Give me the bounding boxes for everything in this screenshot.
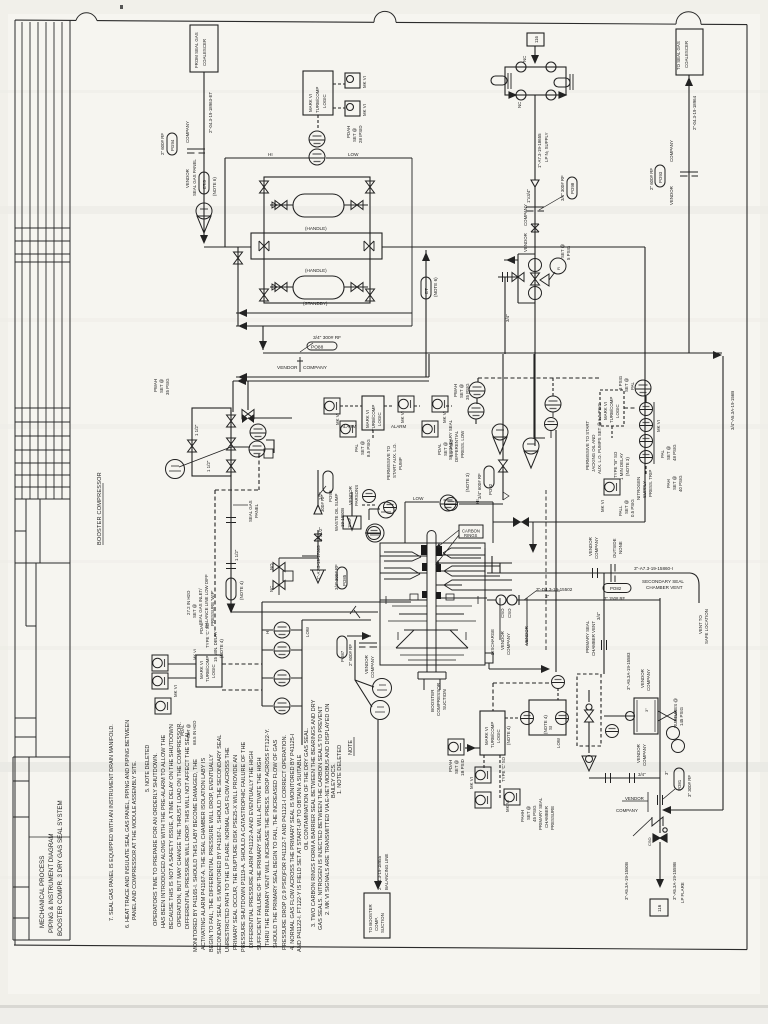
svg-text:PO9B: PO9B xyxy=(328,490,333,502)
svg-text:(NOTE 4): (NOTE 4) xyxy=(506,726,511,745)
svg-text:COMPANY: COMPANY xyxy=(370,656,375,678)
svg-text:PAL: PAL xyxy=(354,443,359,452)
svg-text:1 1/2": 1 1/2" xyxy=(194,424,199,436)
svg-text:PDAH: PDAH xyxy=(448,760,453,772)
svg-text:VENDOR: VENDOR xyxy=(625,796,644,801)
svg-text:VENT TO: VENT TO xyxy=(698,615,703,634)
svg-text:MK VI: MK VI xyxy=(173,685,178,697)
svg-text:LOGIC: LOGIC xyxy=(615,404,620,418)
svg-text:VENDOR: VENDOR xyxy=(500,631,505,650)
svg-text:SET @: SET @ xyxy=(352,127,357,142)
svg-text:MK VI: MK VI xyxy=(442,411,447,423)
svg-text:3": 3" xyxy=(664,771,669,775)
svg-text:3": 3" xyxy=(545,594,550,599)
svg-text:MK VI: MK VI xyxy=(400,411,405,423)
svg-text:3" 300# RF: 3" 300# RF xyxy=(687,775,692,797)
svg-text:RINGS: RINGS xyxy=(464,533,477,538)
svg-text:2. MK VI SIGNALS ARE TRANSMITT: 2. MK VI SIGNALS ARE TRANSMITTED VIA E-N… xyxy=(325,704,331,915)
svg-text:COALESCER: COALESCER xyxy=(684,41,689,68)
svg-text:(NOTE 6): (NOTE 6) xyxy=(212,177,217,196)
svg-text:BOOSTER COMPRESSOR: BOOSTER COMPRESSOR xyxy=(97,472,103,545)
svg-text:SECONDARY SEAL IS MONITORED BY: SECONDARY SEAL IS MONITORED BY P41167-L.… xyxy=(217,735,223,954)
svg-text:PO81: PO81 xyxy=(677,779,682,791)
svg-text:28 IPSID: 28 IPSID xyxy=(358,125,363,143)
svg-text:PO85: PO85 xyxy=(342,574,347,586)
svg-text:CHAMBER: CHAMBER xyxy=(544,806,549,828)
svg-text:DISCHARGE: DISCHARGE xyxy=(490,629,495,655)
svg-text:PRESSURE: PRESSURE xyxy=(550,806,555,830)
svg-text:3/4": 3/4" xyxy=(505,314,510,322)
svg-text:PWAH: PWAH xyxy=(153,379,158,392)
svg-text:COMPANY: COMPANY xyxy=(303,365,328,371)
svg-text:MARK VI: MARK VI xyxy=(308,94,313,112)
svg-text:300# RF: 300# RF xyxy=(320,495,325,512)
svg-text:TYPE 'C' SO: TYPE 'C' SO xyxy=(501,756,506,782)
svg-text:BALANCING LINE: BALANCING LINE xyxy=(384,854,389,890)
svg-text:ACTIVATING ALARM P41167-A. THE: ACTIVATING ALARM P41167-A. THE SEAL CHAM… xyxy=(201,758,207,950)
svg-text:SET @: SET @ xyxy=(360,440,365,455)
svg-text:SAFE LOCATION: SAFE LOCATION xyxy=(704,609,709,644)
svg-text:PRESS. LOW: PRESS. LOW xyxy=(460,430,465,458)
svg-text:116: 116 xyxy=(534,35,539,43)
svg-text:TURB/COMP: TURB/COMP xyxy=(315,87,320,113)
svg-text:(NOTE 4): (NOTE 4) xyxy=(239,581,244,600)
svg-text:DIFFERENTIAL PRESSURE ALARM P4: DIFFERENTIAL PRESSURE ALARM P41122-A AND… xyxy=(249,751,255,948)
svg-text:3 PSIG: 3 PSIG xyxy=(618,375,623,390)
svg-text:TURB/COMP: TURB/COMP xyxy=(205,656,210,682)
svg-text:LOGIC: LOGIC xyxy=(496,729,501,743)
svg-text:3"-A5.3A-19-1550B: 3"-A5.3A-19-1550B xyxy=(624,862,629,900)
svg-text:2" 600# RF: 2" 600# RF xyxy=(160,133,165,155)
svg-text:1B PSID: 1B PSID xyxy=(460,759,465,776)
svg-text:TRAP: TRAP xyxy=(348,517,352,528)
svg-text:PAL: PAL xyxy=(630,381,635,390)
svg-text:VENDOR: VENDOR xyxy=(277,365,298,371)
svg-text:TYPE 'C' SO: TYPE 'C' SO xyxy=(205,622,210,648)
svg-text:BALANCE LINE LOW DIFF: BALANCE LINE LOW DIFF xyxy=(204,574,209,628)
svg-text:JACKING OIL AND: JACKING OIL AND xyxy=(591,435,596,472)
svg-text:1"x3/4": 1"x3/4" xyxy=(526,189,531,203)
svg-text:THRU THE PRIMARY VENT WILL INC: THRU THE PRIMARY VENT WILL INCREASE THE … xyxy=(265,728,271,946)
svg-text:NITROGEN: NITROGEN xyxy=(636,477,641,500)
svg-text:SI: SI xyxy=(548,726,553,730)
svg-text:PO93: PO93 xyxy=(658,171,663,183)
svg-text:OPERATION, BUT MAY CHANGE THE: OPERATION, BUT MAY CHANGE THE THRUST LOA… xyxy=(177,722,183,927)
svg-text:15 MIN. DELAY: 15 MIN. DELAY xyxy=(213,631,218,662)
svg-text:VENDOR: VENDOR xyxy=(669,186,674,205)
svg-text:HI: HI xyxy=(265,630,270,634)
svg-text:SEAL GAS INLET/: SEAL GAS INLET/ xyxy=(198,588,203,625)
svg-text:TO SEAL GAS: TO SEAL GAS xyxy=(676,41,681,70)
svg-text:LOW: LOW xyxy=(305,626,310,637)
svg-text:3/4": 3/4" xyxy=(638,772,646,777)
svg-text:3": 3" xyxy=(644,708,649,712)
svg-text:TO BOOSTER: TO BOOSTER xyxy=(368,904,373,933)
svg-text:SET @: SET @ xyxy=(560,243,565,258)
svg-text:SUCTION: SUCTION xyxy=(380,913,385,933)
svg-text:(NOTE 3): (NOTE 3) xyxy=(625,457,630,476)
svg-text:OIL CONTAMINATION OF THE DRY G: OIL CONTAMINATION OF THE DRY GAS SEAL. xyxy=(304,727,310,850)
svg-text:HI: HI xyxy=(268,152,273,157)
svg-text:PERMISSIVE TO: PERMISSIVE TO xyxy=(386,445,391,480)
svg-text:1 1/2": 1 1/2" xyxy=(234,549,239,561)
svg-text:PANEL: PANEL xyxy=(254,503,259,518)
svg-text:MK VI: MK VI xyxy=(505,800,510,812)
svg-text:TURB/COMP: TURB/COMP xyxy=(490,722,495,748)
svg-text:35 PSIG: 35 PSIG xyxy=(165,378,170,395)
svg-text:OUTSIDE: OUTSIDE xyxy=(612,538,617,558)
svg-text:MK VI: MK VI xyxy=(362,76,367,88)
svg-text:SUPPLY: SUPPLY xyxy=(642,481,647,498)
svg-text:TURB/COMP: TURB/COMP xyxy=(609,397,614,423)
svg-text:3/4" 300# RF: 3/4" 300# RF xyxy=(313,335,341,341)
svg-text:SHOULD THE PRIMARY SEAL BEGIN: SHOULD THE PRIMARY SEAL BEGIN TO FAIL, T… xyxy=(273,739,279,948)
svg-text:7. SEAL GAS PANEL IS EQUIPPED: 7. SEAL GAS PANEL IS EQUIPPED WITH AN IN… xyxy=(109,724,115,921)
svg-text:NOTE: NOTE xyxy=(348,740,354,755)
svg-text:COMPANY: COMPANY xyxy=(616,808,638,813)
svg-text:PERMISSIVE TO START: PERMISSIVE TO START xyxy=(585,420,590,470)
svg-text:MK VI: MK VI xyxy=(600,500,605,512)
svg-text:ALARM: ALARM xyxy=(341,424,356,429)
svg-text:MARK VI: MARK VI xyxy=(603,402,608,420)
svg-text:DIFFERENTIAL PRESSURE WILL DRO: DIFFERENTIAL PRESSURE WILL DROP. THIS WI… xyxy=(185,731,191,929)
svg-text:1 1/2": 1 1/2" xyxy=(206,460,211,472)
svg-text:3"-A5.3A-19-1559B: 3"-A5.3A-19-1559B xyxy=(672,862,677,900)
svg-text:BEGIN TO FAIL, THE DIFFERENTIA: BEGIN TO FAIL, THE DIFFERENTIAL PRESSURE… xyxy=(209,754,215,952)
svg-text:PRESSURE 'WIP': PRESSURE 'WIP' xyxy=(210,590,215,626)
svg-text:SET @: SET @ xyxy=(526,805,531,820)
svg-text:SET @: SET @ xyxy=(459,383,464,398)
svg-text:MK VI: MK VI xyxy=(192,649,197,660)
svg-text:COMPANY: COMPANY xyxy=(642,744,647,766)
svg-text:(NOTE 3): (NOTE 3) xyxy=(465,473,470,492)
svg-text:TYPE "B" SO: TYPE "B" SO xyxy=(613,451,618,478)
svg-text:START AUX. L.O.: START AUX. L.O. xyxy=(392,443,397,478)
svg-text:1.0 PSID: 1.0 PSID xyxy=(449,439,454,457)
svg-text:0.5 PSIG: 0.5 PSIG xyxy=(630,499,635,517)
svg-text:GAS SEALS. NITROGEN IS INJECTE: GAS SEALS. NITROGEN IS INJECTED BETWEEN … xyxy=(318,706,324,930)
svg-text:COMPRESSOR: COMPRESSOR xyxy=(436,682,441,716)
svg-text:MARK VI: MARK VI xyxy=(484,727,489,745)
svg-text:MARK VI: MARK VI xyxy=(365,410,370,428)
svg-text:LOW: LOW xyxy=(556,737,561,748)
svg-text:SET @: SET @ xyxy=(159,378,164,393)
svg-text:48 PSIG: 48 PSIG xyxy=(672,444,677,461)
svg-text:HI: HI xyxy=(475,499,480,504)
svg-text:3"-D4.3-19-15502: 3"-D4.3-19-15502 xyxy=(536,587,573,592)
svg-text:ALARM: ALARM xyxy=(391,424,406,429)
svg-text:BOOSTER COMPR. 3 DRY GAS SEAL: BOOSTER COMPR. 3 DRY GAS SEAL SYSTEM xyxy=(57,800,64,936)
svg-text:AND P41122-I. FT122-Y IS FIELD: AND P41122-I. FT122-Y IS FIELD SET AT ST… xyxy=(297,754,303,952)
svg-text:PO87: PO87 xyxy=(340,650,345,662)
svg-text:MONITORED BY P41165-I. SHOULD: MONITORED BY P41165-I. SHOULD THIS LABY … xyxy=(193,759,199,952)
svg-text:2" 600# RF: 2" 600# RF xyxy=(348,644,353,666)
svg-text:2"-04.3-19-18963-ET: 2"-04.3-19-18963-ET xyxy=(208,92,213,133)
svg-text:WASTE OIL SUMP: WASTE OIL SUMP xyxy=(334,493,339,531)
svg-text:45 PSIG: 45 PSIG xyxy=(532,805,537,822)
svg-text:SET @: SET @ xyxy=(454,759,459,774)
svg-text:UNRESTRICTED PATH TO THE LP FL: UNRESTRICTED PATH TO THE LP FLARE. NORMA… xyxy=(225,747,231,952)
svg-text:COMPANY: COMPANY xyxy=(506,633,511,655)
svg-text:OPERATORS TIME TO PREPARE FOR: OPERATORS TIME TO PREPARE FOR AN ORDERLY… xyxy=(153,753,159,926)
svg-text:5 PSIG: 5 PSIG xyxy=(566,245,571,260)
svg-text:PALL: PALL xyxy=(618,505,623,516)
svg-text:TURB/COMP: TURB/COMP xyxy=(371,405,376,431)
svg-text:MK VI: MK VI xyxy=(362,104,367,116)
svg-text:CHAMBER VENT: CHAMBER VENT xyxy=(591,621,596,656)
svg-text:HAS BEEN INTRODUCED ALONG WITH: HAS BEEN INTRODUCED ALONG WITH THE PRE-A… xyxy=(161,735,167,928)
svg-text:PO92: PO92 xyxy=(488,483,493,495)
svg-text:2"-04.3-19-18964: 2"-04.3-19-18964 xyxy=(692,95,697,130)
svg-text:LOGIC: LOGIC xyxy=(377,412,382,426)
svg-text:SET @: SET @ xyxy=(192,603,197,618)
svg-text:3"-A5.3A-19-15583: 3"-A5.3A-19-15583 xyxy=(626,652,631,690)
svg-text:COMPANY: COMPANY xyxy=(669,140,674,162)
svg-text:VENDOR: VENDOR xyxy=(640,669,645,688)
svg-text:COMPANY: COMPANY xyxy=(594,537,599,559)
svg-text:MK VI: MK VI xyxy=(335,413,340,425)
svg-text:PRESS. TRIP: PRESS. TRIP xyxy=(648,470,653,497)
svg-text:PG94: PG94 xyxy=(170,139,175,151)
svg-text:PARSONS: PARSONS xyxy=(354,485,359,506)
svg-text:COALESCER: COALESCER xyxy=(202,39,207,66)
svg-text:3/4"-A5.3A-19-156B: 3/4"-A5.3A-19-156B xyxy=(730,391,735,430)
svg-text:FROM SEAL GAS: FROM SEAL GAS xyxy=(194,32,199,68)
svg-text:SECONDARY SEAL: SECONDARY SEAL xyxy=(642,579,684,584)
svg-text:VENDOR: VENDOR xyxy=(523,233,528,252)
svg-text:PAL: PAL xyxy=(660,449,665,458)
svg-text:PWAH: PWAH xyxy=(453,384,458,397)
svg-text:ET.5: ET.5 xyxy=(202,180,207,189)
svg-text:1"x1/2": 1"x1/2" xyxy=(318,527,323,541)
svg-text:1"-A7.3-19-18655: 1"-A7.3-19-18655 xyxy=(537,133,542,168)
svg-text:MARK VI: MARK VI xyxy=(199,661,204,679)
svg-text:PRIMARY SEAL OCCUR, THE RUPTUR: PRIMARY SEAL OCCUR, THE RUPTURE DISK PSE… xyxy=(233,755,239,950)
svg-text:SEAL GAS: SEAL GAS xyxy=(248,500,253,522)
svg-text:LOW: LOW xyxy=(348,152,359,157)
svg-text:SET @: SET @ xyxy=(624,377,629,392)
svg-text:PO98: PO98 xyxy=(570,182,575,194)
svg-text:PRIMARY SEAL: PRIMARY SEAL xyxy=(538,797,543,830)
svg-text:8.5 PSIG: 8.5 PSIG xyxy=(366,439,371,457)
svg-text:LOGIC: LOGIC xyxy=(322,94,327,108)
svg-text:SET @: SET @ xyxy=(666,445,671,460)
svg-text:35 PSIG: 35 PSIG xyxy=(465,383,470,400)
svg-text:1. NOTE DELETED: 1. NOTE DELETED xyxy=(337,745,343,794)
svg-text:PIPING & INSTRUMENT DIAGRAM: PIPING & INSTRUMENT DIAGRAM xyxy=(48,833,55,933)
svg-text:(STANDBY): (STANDBY) xyxy=(303,301,328,306)
svg-text:COMPANY: COMPANY xyxy=(646,669,651,691)
svg-text:CSO: CSO xyxy=(647,837,652,846)
svg-text:COMP.: COMP. xyxy=(374,917,379,931)
svg-text:COMPANY: COMPANY xyxy=(523,204,528,226)
svg-text:3/4": 3/4" xyxy=(596,612,601,620)
svg-text:3/4" 300# RF: 3/4" 300# RF xyxy=(560,175,565,201)
svg-text:PRESSURE DROP (2.9 PSID)FOR P4: PRESSURE DROP (2.9 PSID)FOR P41122-T AND… xyxy=(282,734,288,950)
svg-text:3/4" 600# RF: 3/4" 600# RF xyxy=(477,473,482,499)
svg-text:145 PSIG: 145 PSIG xyxy=(679,706,684,726)
svg-text:VENDOR: VENDOR xyxy=(636,744,641,763)
svg-text:NC: NC xyxy=(522,56,527,62)
svg-text:SUCTION: SUCTION xyxy=(442,689,447,710)
svg-text:BOOSTER: BOOSTER xyxy=(430,689,435,712)
svg-text:PRIMARY SEAL: PRIMARY SEAL xyxy=(585,620,590,653)
svg-text:VENDOR: VENDOR xyxy=(524,626,529,645)
svg-text:5. NOTE DELETED: 5. NOTE DELETED xyxy=(145,745,151,792)
svg-text:COMPANY: COMPANY xyxy=(185,121,190,143)
svg-text:PO88: PO88 xyxy=(311,345,324,351)
svg-text:LP FLARE: LP FLARE xyxy=(680,882,685,903)
svg-text:(HANDLE): (HANDLE) xyxy=(305,226,327,231)
svg-text:FI: FI xyxy=(557,267,561,270)
svg-text:LOW: LOW xyxy=(413,496,424,501)
svg-text:RUPTURES @: RUPTURES @ xyxy=(673,698,678,728)
svg-text:DIFFERENTIAL: DIFFERENTIAL xyxy=(454,430,459,462)
svg-text:MK VI: MK VI xyxy=(656,420,661,432)
svg-text:CSO: CSO xyxy=(500,608,505,618)
svg-text:PRESSURE SHUTDOWN P1119-A. SHO: PRESSURE SHUTDOWN P1119-A. SHOULD A CATA… xyxy=(241,742,247,952)
svg-text:(HANDLE): (HANDLE) xyxy=(305,268,327,273)
svg-text:40 PSIG: 40 PSIG xyxy=(678,475,683,492)
svg-text:BECAUSE THIS IS NOT A SAFETY I: BECAUSE THIS IS NOT A SAFETY ISSUE, A TI… xyxy=(169,724,175,929)
svg-text:VENDOR: VENDOR xyxy=(588,537,593,556)
svg-text:3" 150# RF: 3" 150# RF xyxy=(604,596,625,601)
svg-text:PO82: PO82 xyxy=(610,586,622,591)
svg-text:VENDOR: VENDOR xyxy=(185,169,190,188)
svg-text:LP N₂ SUPPLY: LP N₂ SUPPLY xyxy=(544,132,549,162)
svg-text:NONE: NONE xyxy=(618,541,623,554)
svg-text:SET @: SET @ xyxy=(624,499,629,514)
svg-text:68.5 IN H2O: 68.5 IN H2O xyxy=(192,720,197,745)
svg-text:PAHH: PAHH xyxy=(520,810,525,822)
svg-text:2" 600# RF: 2" 600# RF xyxy=(649,168,654,190)
svg-text:VENDOR: VENDOR xyxy=(364,655,369,674)
svg-text:PDAH: PDAH xyxy=(346,126,351,138)
svg-text:PUMP: PUMP xyxy=(398,457,403,470)
svg-text:1 MIN DELAY: 1 MIN DELAY xyxy=(619,453,624,480)
svg-text:SET @: SET @ xyxy=(672,475,677,490)
svg-text:SEAL GAS PANEL: SEAL GAS PANEL xyxy=(192,159,197,196)
svg-text:SUFFICIENT FAILURE OF THE PRIM: SUFFICIENT FAILURE OF THE PRIMARY SEAL W… xyxy=(257,757,263,950)
svg-text:SET @: SET @ xyxy=(443,441,448,456)
svg-text:BAILEY OCS.: BAILEY OCS. xyxy=(331,763,337,798)
svg-text:ET: ET xyxy=(424,288,429,294)
svg-text:PAH: PAH xyxy=(666,479,671,488)
svg-text:LOGIC: LOGIC xyxy=(211,664,216,678)
svg-text:116: 116 xyxy=(657,904,662,912)
svg-text:(NOTE 4): (NOTE 4) xyxy=(219,639,224,658)
svg-text:PDAL: PDAL xyxy=(437,443,442,455)
svg-text:3. TWO CARBON RINGS FORM A BAR: 3. TWO CARBON RINGS FORM A BARRIER SEAL … xyxy=(311,699,317,927)
svg-text:6. HEAT TRACE AND INSULATE SEA: 6. HEAT TRACE AND INSULATE SEAL GAS PANE… xyxy=(125,720,131,928)
svg-text:CSO: CSO xyxy=(507,608,512,618)
svg-text:(NOTE 4): (NOTE 4) xyxy=(543,715,548,734)
svg-text:MK VI: MK VI xyxy=(469,777,474,789)
svg-text:19-1950B: 19-1950B xyxy=(340,508,345,527)
svg-text:(NOTE 6): (NOTE 6) xyxy=(433,277,438,297)
svg-text:CHAMBER VENT: CHAMBER VENT xyxy=(646,585,683,590)
svg-text:27.2 IN H2O: 27.2 IN H2O xyxy=(186,590,191,615)
svg-text:2"-04.3-19-18955: 2"-04.3-19-18955 xyxy=(377,855,382,890)
svg-text:MECHANICAL PROCESS: MECHANICAL PROCESS xyxy=(39,856,46,928)
svg-text:4. NORMAL GAS FLOW ACROSS THE: 4. NORMAL GAS FLOW ACROSS THE PRIMARY SE… xyxy=(290,733,296,950)
svg-text:PANEL AND COMPRESSOR AT THE MO: PANEL AND COMPRESSOR AT THE MODULE ASSEM… xyxy=(132,761,138,920)
svg-text:AUX. L.O. PUMPS SET @ 6.5 PSIG: AUX. L.O. PUMPS SET @ 6.5 PSIG xyxy=(597,402,602,474)
svg-text:NC: NC xyxy=(517,102,522,108)
svg-text:3"-A7.3-19-15860-I: 3"-A7.3-19-15860-I xyxy=(634,566,673,571)
svg-text:VENDOR: VENDOR xyxy=(348,486,353,505)
